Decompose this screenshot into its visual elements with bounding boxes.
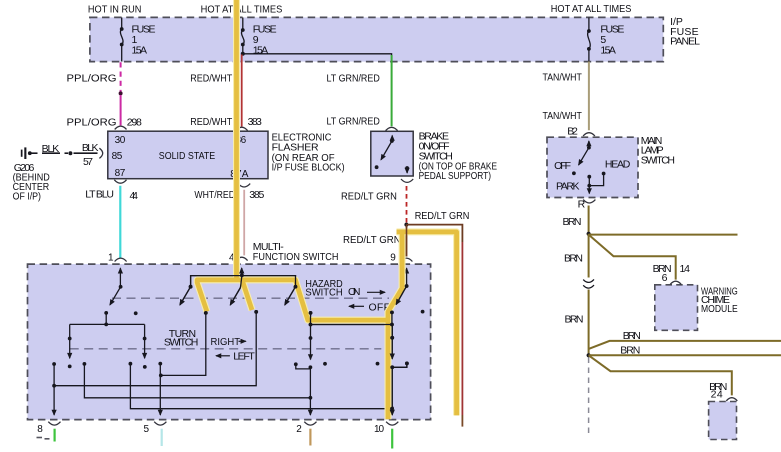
svg-text:FUNCTION SWITCH: FUNCTION SWITCH (253, 251, 339, 263)
I/P fuse panel box (90, 17, 663, 61)
redraw pin9 red wire over highlight (406, 226, 408, 257)
main lamp switch internals (572, 141, 605, 194)
wire pin 8 stub LT GRN (53, 429, 55, 442)
label RED/LT GRN pin9 (343, 234, 401, 246)
svg-text:15A: 15A (253, 44, 269, 56)
svg-text:HEAD: HEAD (605, 159, 631, 171)
label I/P FUSE PANEL (670, 16, 700, 47)
fuse F9 15A (241, 18, 245, 54)
svg-text:ON: ON (348, 286, 361, 298)
wire H3 bus (129, 362, 393, 409)
wire RED/LT GRN into pin 9 (406, 225, 408, 257)
connector cups multifunction bottom pins (48, 422, 398, 425)
svg-text:385: 385 (249, 189, 264, 201)
label G206 (13, 162, 51, 203)
label RED/WHT 383 (190, 116, 262, 128)
wire pin 10 stub LT GRN (391, 429, 393, 449)
svg-text:PPL/ORG: PPL/ORG (67, 73, 117, 85)
wire RED/LT GRN to right and down (406, 225, 462, 427)
wire PPL/ORG solid lower (120, 95, 122, 125)
label RED/WHT row1 (190, 73, 233, 85)
svg-text:R: R (578, 199, 586, 211)
label BRN 24 (709, 381, 727, 401)
svg-text:BRN: BRN (620, 345, 640, 357)
node RED/LT GRN junction (404, 223, 408, 227)
labels OFF HEAD PARK (554, 159, 631, 193)
svg-text:PPL/ORG: PPL/ORG (67, 117, 117, 129)
connector cap brake switch input (386, 127, 398, 130)
connector cap pin 85 (99, 148, 102, 158)
labels flasher pins (112, 135, 249, 180)
brake on/off switch box (371, 131, 413, 176)
connector cap multifunction pin 9 (400, 258, 412, 261)
label MAIN LAMP SWITCH (641, 135, 675, 166)
connector cap pin 30 (115, 126, 127, 129)
labels multifunction top pins (108, 252, 396, 263)
label PPL/ORG 298 (67, 117, 142, 129)
label RIGHT with arrow (211, 336, 246, 348)
svg-text:RED/LT GRN: RED/LT GRN (415, 210, 470, 222)
svg-text:LT GRN/RED: LT GRN/RED (327, 73, 381, 85)
svg-text:I/P FUSE BLOCK): I/P FUSE BLOCK) (272, 161, 345, 173)
label R (578, 199, 586, 211)
label OFF with arrow (349, 301, 390, 313)
wire pin 2 stub TAN (309, 429, 311, 446)
label TURN SWITCH (164, 328, 199, 349)
wire BRN below R (588, 206, 590, 234)
svg-text:9: 9 (390, 252, 396, 263)
svg-text:1: 1 (108, 253, 114, 264)
pin 2 column (294, 325, 313, 416)
svg-text:RED/LT GRN: RED/LT GRN (341, 191, 397, 203)
svg-text:SWITCH: SWITCH (305, 286, 342, 298)
svg-text:MODULE: MODULE (701, 303, 738, 315)
connector cap pin B2 (583, 133, 595, 136)
svg-text:RED/WHT: RED/WHT (190, 73, 233, 85)
svg-text:HOT AT ALL TIMES: HOT AT ALL TIMES (551, 3, 632, 15)
svg-text:44: 44 (130, 190, 139, 202)
ground G206 (21, 147, 32, 159)
label MULTI-FUNCTION SWITCH (253, 241, 339, 263)
wire LT BLU (119, 186, 121, 259)
label LT BLU 44 (85, 189, 138, 202)
svg-text:SOLID STATE: SOLID STATE (159, 150, 215, 162)
multifunction pin 9 input arm (390, 268, 409, 324)
connector cap pin 86 (236, 127, 248, 130)
label WHT/RED 385 (194, 189, 264, 201)
connector cup pin R (583, 200, 595, 203)
labels BRN right branches (620, 330, 641, 357)
svg-text:BLK: BLK (82, 142, 99, 154)
svg-text:RED/WHT: RED/WHT (190, 116, 233, 128)
label BRN 6 14 (653, 263, 691, 284)
wire break symbol (583, 279, 594, 288)
label PPL/ORG row1 (67, 73, 117, 85)
wire BRN horizontal right (589, 234, 738, 236)
wire BLK dashed to pin 85 (32, 151, 98, 155)
redraw hazard right contact over highlight (309, 311, 395, 340)
svg-text:PARK: PARK (556, 181, 580, 193)
BRN 24 module box (709, 402, 737, 440)
node splice on PPL/ORG (119, 91, 123, 95)
brake switch internals (375, 136, 409, 174)
label B2 (567, 126, 578, 138)
connector cap chime pin 14 (670, 281, 681, 284)
label SOLID STATE (159, 150, 215, 162)
svg-text:BRN: BRN (563, 216, 582, 228)
node BRN junction 2 (587, 353, 591, 357)
label FUSE 5 15A (600, 23, 624, 56)
label WARNING CHIME MODULE (701, 285, 738, 315)
label HAZARD SWITCH (305, 278, 343, 298)
main lamp switch box (547, 137, 638, 197)
svg-text:57: 57 (83, 156, 93, 168)
svg-text:SWITCH: SWITCH (641, 154, 675, 166)
svg-text:HOT AT ALL TIMES: HOT AT ALL TIMES (201, 4, 283, 16)
svg-text:B2: B2 (567, 126, 578, 138)
svg-text:TAN/WHT: TAN/WHT (543, 71, 583, 83)
multifunction pin 1 input arm (104, 268, 122, 315)
wire BRN branch upper right (589, 341, 781, 349)
svg-text:383: 383 (248, 116, 262, 128)
svg-text:LT GRN/RED: LT GRN/RED (327, 116, 381, 128)
highlight yellow circuit trace halo (197, 0, 456, 419)
label HOT AT ALL TIMES right (551, 3, 632, 15)
label LT GRN/RED row2 (327, 116, 381, 128)
svg-text:87: 87 (115, 168, 126, 179)
highlight yellow circuit trace (197, 0, 456, 419)
label TAN/WHT row1 (543, 71, 583, 83)
redraw pin10 column over highlight (390, 325, 409, 416)
label LT GRN/RED row1 (327, 73, 381, 85)
connector cup brake switch output (401, 179, 413, 182)
svg-text:PANEL: PANEL (670, 35, 700, 47)
svg-text:SWITCH: SWITCH (164, 337, 199, 349)
node unused contact right (421, 310, 425, 314)
svg-text:PEDAL SUPPORT): PEDAL SUPPORT) (419, 170, 491, 182)
node unused contact left (134, 311, 138, 315)
wire RED/LT GRN dashed (406, 186, 408, 223)
solid state flasher box U1 (108, 131, 268, 179)
connector cap multifunction pin 1 (115, 258, 127, 261)
wire fuse9 to LT GRN/RED drop (243, 54, 392, 56)
hazard throw contacts and drops (52, 310, 394, 388)
wire H2 bus (83, 362, 313, 400)
svg-text:LT BLU: LT BLU (85, 189, 114, 201)
label ELECTRONIC FLASHER (272, 132, 345, 174)
label HOT IN RUN (88, 4, 141, 16)
redraw pin4 arrow over highlight (230, 268, 244, 305)
svg-text:30: 30 (115, 135, 126, 146)
hazard feed bus from pin 4 (180, 268, 298, 305)
wire pin 5 stub LT BLU (161, 429, 163, 446)
labels BRN column (563, 216, 584, 326)
label ON with arrow (348, 286, 385, 298)
connector cup pin 87 (114, 180, 126, 183)
label HOT AT ALL TIMES center (201, 4, 283, 16)
svg-text:RIGHT: RIGHT (211, 336, 241, 348)
wire unnamed dashed continuation (588, 358, 590, 436)
svg-text:OFF: OFF (554, 160, 571, 172)
label BLK BLK 57 (42, 142, 99, 168)
svg-text:15A: 15A (132, 44, 148, 56)
marks bottom left (37, 438, 50, 439)
wire WHT/RED (243, 190, 245, 256)
svg-text:BLK: BLK (42, 143, 60, 155)
wire BRN vertical middle (588, 234, 590, 278)
svg-text:OF I/P): OF I/P) (13, 191, 41, 203)
svg-text:BRN: BRN (623, 330, 641, 342)
wire TAN/WHT (588, 62, 590, 131)
svg-text:10: 10 (374, 424, 384, 435)
svg-text:85: 85 (112, 151, 123, 162)
pin 5 column (158, 362, 162, 415)
wire BRN branch to module 24 (589, 355, 732, 395)
svg-text:2: 2 (296, 424, 302, 435)
wire RED/WHT (241, 55, 243, 127)
svg-text:HOT IN RUN: HOT IN RUN (88, 4, 141, 16)
wire BRN diagonal to chime module (589, 235, 676, 280)
node BRN junction 1 (587, 232, 591, 236)
wire PPL/ORG dashed upper (120, 62, 122, 92)
svg-text:298: 298 (127, 117, 142, 129)
warning chime module box (655, 285, 698, 331)
svg-text:24: 24 (711, 389, 723, 401)
turn switch left bus (68, 313, 147, 369)
fuse F1 15A (120, 18, 124, 62)
node fuse9 output junction (241, 52, 245, 56)
nodes unused contacts bottom row (323, 362, 379, 366)
svg-text:8: 8 (37, 424, 43, 435)
label FUSE 9 15A (253, 23, 277, 56)
svg-text:6: 6 (662, 272, 668, 284)
labels multifunction bottom pins (37, 424, 384, 435)
svg-text:BRN: BRN (565, 313, 584, 325)
wire BRN branch middle right (589, 354, 781, 356)
svg-text:WHT/RED: WHT/RED (194, 189, 235, 201)
connector cap multifunction pin 4 (236, 257, 248, 260)
wire LT GRN/RED (391, 55, 393, 126)
multifunction switch interior dashed linkage lines (70, 298, 389, 349)
svg-text:RED/LT GRN: RED/LT GRN (343, 234, 401, 246)
label BRAKE ON/OFF SWITCH (419, 130, 497, 182)
wire BRN vertical lower (588, 290, 590, 356)
svg-text:14: 14 (680, 263, 691, 275)
svg-text:5: 5 (144, 424, 150, 435)
redraw throw contact dots over highlight (204, 310, 258, 315)
pin 10 column (390, 325, 409, 416)
svg-text:15A: 15A (600, 44, 616, 56)
redraw hazard feed bus over highlight (180, 276, 298, 305)
label FUSE 1 15A (132, 23, 156, 56)
svg-text:BRN: BRN (564, 252, 583, 264)
label RED/LT GRN left (341, 191, 397, 203)
pin 8 column (52, 362, 56, 415)
connector cap module pin 24 (726, 398, 737, 401)
redraw pin9 arm over highlight (390, 284, 409, 324)
fuse F5 15A (587, 18, 591, 62)
multi-function switch box (28, 264, 431, 420)
label RED/LT GRN right (415, 210, 470, 222)
svg-text:TAN/WHT: TAN/WHT (543, 110, 583, 122)
label TAN/WHT row2 (543, 110, 583, 122)
connector cup pin 87A (238, 184, 250, 187)
svg-text:LEFT: LEFT (233, 350, 255, 362)
label LEFT with arrow (216, 350, 255, 362)
